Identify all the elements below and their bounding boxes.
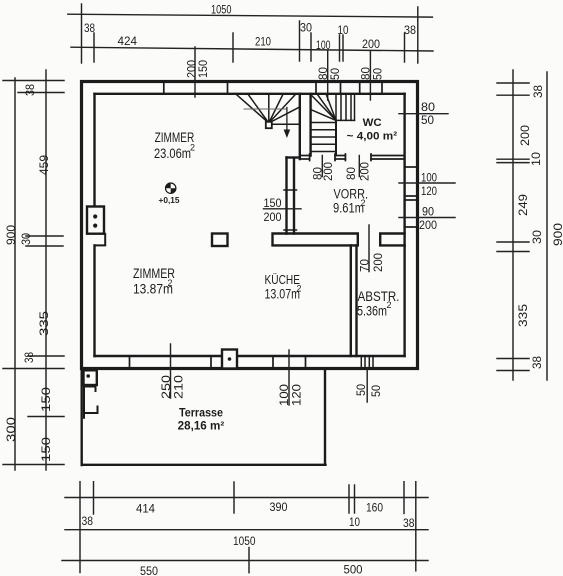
bottom dim line A xyxy=(65,497,428,499)
svg-text:50: 50 xyxy=(421,115,434,127)
svg-text:250: 250 xyxy=(161,375,173,399)
svg-text:210: 210 xyxy=(255,37,271,49)
svg-text:100: 100 xyxy=(279,384,291,406)
svg-text:WC: WC xyxy=(363,117,382,129)
svg-text:200: 200 xyxy=(419,220,437,232)
enclosed stair fan xyxy=(311,94,355,152)
svg-text:100: 100 xyxy=(421,173,437,185)
terrace door post in bottom wall xyxy=(222,350,237,369)
inner wall left edge upper xyxy=(93,94,95,207)
svg-text:2: 2 xyxy=(297,284,302,294)
top dim line 1050 xyxy=(68,14,433,17)
bottom dim line C xyxy=(62,560,428,562)
pillar xyxy=(212,234,228,247)
door centerlines vorr xyxy=(264,114,456,272)
svg-text:120: 120 xyxy=(292,384,304,406)
svg-text:ZIMMER: ZIMMER xyxy=(155,130,195,145)
tick x231 xyxy=(232,33,234,62)
svg-text:1050: 1050 xyxy=(211,5,232,17)
svg-text:23.06m: 23.06m xyxy=(154,146,191,161)
stair arrow head xyxy=(284,130,291,139)
svg-text:900: 900 xyxy=(6,225,18,245)
svg-text:50: 50 xyxy=(356,384,368,396)
wall kueche-abstr xyxy=(351,245,357,356)
svg-text:150: 150 xyxy=(264,198,282,210)
abstr 50/50 centerline xyxy=(366,370,368,403)
svg-text:10: 10 xyxy=(349,517,360,529)
tick x417.8 long xyxy=(417,7,419,63)
svg-text:120: 120 xyxy=(421,186,437,198)
tick y159.2 xyxy=(497,158,529,160)
tick x354.5 xyxy=(354,485,356,513)
tick y92.5 xyxy=(18,92,64,94)
svg-text:414: 414 xyxy=(136,504,156,516)
landing edge xyxy=(336,119,355,121)
top dim line row2 xyxy=(71,47,433,51)
svg-text:38: 38 xyxy=(24,352,36,363)
window centerline x327.7 xyxy=(327,51,329,100)
svg-text:150: 150 xyxy=(198,60,210,78)
tick x404.5 xyxy=(404,33,406,62)
vorr bottom thick wall xyxy=(273,234,405,246)
svg-text:38: 38 xyxy=(403,518,415,530)
svg-text:38: 38 xyxy=(84,23,95,35)
newel post xyxy=(266,122,272,128)
svg-text:150: 150 xyxy=(41,387,53,412)
dim lines group right xyxy=(497,70,547,380)
terrace post box xyxy=(84,370,97,385)
open winder stair xyxy=(236,94,300,125)
inner wall left edge lower xyxy=(93,245,95,356)
inner wall bottom edge xyxy=(95,355,405,357)
svg-text:200: 200 xyxy=(264,212,282,224)
svg-text:80: 80 xyxy=(318,67,330,80)
svg-text:28,16 m²: 28,16 m² xyxy=(178,420,225,432)
terrace bracket steps xyxy=(84,387,98,418)
svg-text:2: 2 xyxy=(168,278,173,288)
tick y162.6 xyxy=(497,162,529,164)
svg-text:1050: 1050 xyxy=(233,536,256,548)
svg-text:9.61m: 9.61m xyxy=(333,200,364,215)
inner wall top edge xyxy=(95,94,405,356)
tick x404 xyxy=(403,482,405,514)
svg-text:390: 390 xyxy=(270,502,288,514)
wall zimmer-vorr xyxy=(287,158,300,234)
tick x249 xyxy=(248,548,250,573)
svg-text:300: 300 xyxy=(6,417,18,442)
svg-text:30: 30 xyxy=(300,23,312,35)
svg-text:10: 10 xyxy=(338,25,349,37)
tick x94 xyxy=(93,33,95,62)
svg-text:10: 10 xyxy=(531,152,543,166)
svg-text:200: 200 xyxy=(520,125,532,146)
rotated dim labels xyxy=(6,60,563,462)
dim lines group left xyxy=(3,70,64,470)
svg-text:38: 38 xyxy=(82,516,94,528)
svg-text:459: 459 xyxy=(39,155,51,175)
window centerline x195 xyxy=(194,47,196,97)
door ticks on zimmer-vorr wall xyxy=(284,190,297,230)
svg-text:335: 335 xyxy=(518,304,530,327)
svg-text:+0,15: +0,15 xyxy=(159,195,180,205)
walking line xyxy=(244,108,287,131)
svg-text:160: 160 xyxy=(366,503,383,515)
chimney dots xyxy=(93,214,97,227)
svg-text:200: 200 xyxy=(362,39,380,51)
right wall dim lines xyxy=(399,113,448,115)
svg-text:200: 200 xyxy=(187,60,199,78)
svg-text:ABSTR.: ABSTR. xyxy=(358,289,400,304)
svg-text:70: 70 xyxy=(360,259,372,272)
tick x343 xyxy=(342,35,344,61)
svg-text:38: 38 xyxy=(533,85,545,98)
tick y416.5 xyxy=(28,416,64,418)
tick x234 xyxy=(233,482,235,513)
left dim line row2 xyxy=(45,70,47,470)
tick y358.5 xyxy=(497,358,529,360)
tick y242 xyxy=(497,241,529,243)
tick y95.2 xyxy=(497,94,529,96)
dim lines group top xyxy=(68,4,433,100)
svg-text:13.07m: 13.07m xyxy=(265,286,301,301)
tick y356 xyxy=(28,355,64,357)
tick y83 xyxy=(497,82,529,84)
survey marker xyxy=(166,183,176,193)
tick y236 xyxy=(26,235,63,237)
right dim line row1 xyxy=(512,70,514,380)
room labels xyxy=(133,117,400,433)
tick y464.5 long xyxy=(3,464,64,466)
tick x80 long xyxy=(79,482,81,573)
enclosed stair upper treads xyxy=(335,94,337,121)
svg-text:30: 30 xyxy=(21,233,33,245)
svg-text:50: 50 xyxy=(371,385,383,397)
svg-text:550: 550 xyxy=(140,566,158,576)
enclosed stair lower treads xyxy=(311,122,336,124)
svg-text:210: 210 xyxy=(174,375,186,399)
svg-text:200: 200 xyxy=(360,162,372,181)
svg-text:2: 2 xyxy=(387,300,392,310)
window centerline x370.4 xyxy=(369,51,371,100)
svg-text:200: 200 xyxy=(323,162,335,181)
tick y370.5 xyxy=(497,370,529,372)
tick y251.5 xyxy=(497,251,529,253)
outer wall xyxy=(82,82,418,369)
tick x309.5 xyxy=(310,33,312,61)
thin wall vorr-wc bottom xyxy=(300,154,405,161)
terrace walls xyxy=(82,369,326,466)
terrace window centerlines xyxy=(171,344,290,405)
door centerline abstr xyxy=(368,225,370,272)
tick y368.5 long xyxy=(3,368,64,370)
tick x415.8 long xyxy=(415,482,417,571)
svg-text:900: 900 xyxy=(553,223,563,246)
right dim line 900 xyxy=(546,72,548,380)
bottom wall window ticks xyxy=(130,356,306,369)
tick y246 xyxy=(26,245,63,247)
svg-text:249: 249 xyxy=(518,194,530,216)
svg-text:335: 335 xyxy=(39,311,51,336)
abstr 50 slot ticks xyxy=(361,356,373,369)
left dim line 900/300 xyxy=(14,78,16,470)
svg-text:90: 90 xyxy=(422,207,434,219)
svg-text:2: 2 xyxy=(361,198,366,208)
svg-text:50: 50 xyxy=(330,68,342,80)
dim line 150/200 door xyxy=(264,208,302,210)
svg-text:200: 200 xyxy=(373,253,385,272)
stairwell west wall double xyxy=(300,94,311,159)
svg-text:500: 500 xyxy=(344,565,363,576)
tick x81 long xyxy=(81,4,83,63)
tick x299.5 xyxy=(299,21,301,61)
svg-text:2: 2 xyxy=(190,143,195,153)
svg-text:38: 38 xyxy=(25,84,37,96)
tick x93.5 xyxy=(93,482,95,514)
svg-text:150: 150 xyxy=(41,437,53,462)
svg-text:80: 80 xyxy=(361,67,373,80)
dim lines group bottom xyxy=(62,482,428,573)
tick x349 xyxy=(348,485,350,513)
svg-text:5.36m: 5.36m xyxy=(357,303,387,318)
inner wall right edge xyxy=(403,94,405,356)
tick x339.5 xyxy=(339,35,341,61)
top wall window ticks xyxy=(164,82,382,94)
bottom dim line B xyxy=(65,529,428,531)
wc west wall xyxy=(335,120,337,155)
svg-text:38: 38 xyxy=(404,25,416,37)
svg-text:50: 50 xyxy=(373,68,385,80)
svg-text:80: 80 xyxy=(421,102,435,114)
svg-text:100: 100 xyxy=(316,40,331,52)
svg-text:Terrasse: Terrasse xyxy=(179,407,223,419)
tick y80.5 long xyxy=(3,80,64,82)
svg-text:80: 80 xyxy=(346,167,358,180)
svg-text:38: 38 xyxy=(532,356,544,369)
svg-text:424: 424 xyxy=(118,36,138,48)
right wall window ticks xyxy=(405,167,418,227)
svg-text:30: 30 xyxy=(532,230,544,244)
svg-text:~ 4,00 m²: ~ 4,00 m² xyxy=(347,131,398,143)
chimney box on left wall xyxy=(87,207,105,246)
svg-text:KÜCHE: KÜCHE xyxy=(265,272,301,287)
